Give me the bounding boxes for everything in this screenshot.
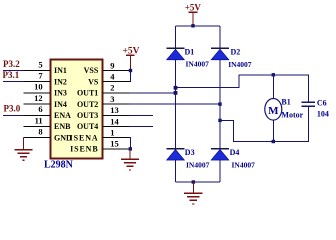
node junction motor top [272,73,275,76]
svg-text:IN4007: IN4007 [232,161,256,170]
svg-text:OUT4: OUT4 [77,122,98,131]
wire VSS stub [130,70,132,72]
wire motor bottom from right leg [220,107,308,142]
node junction OUT2/right leg [218,102,221,105]
motor B1 [265,98,304,120]
node junction motor bottom tap/right leg [218,119,221,122]
ground at GND pin8 [14,138,32,161]
wire ISENA down [130,138,131,149]
wire ISENB stub [130,148,132,150]
svg-text:D3: D3 [185,148,195,157]
node junction motor wire/left leg [174,86,178,90]
power +5V bridge top [185,3,202,26]
svg-text:11: 11 [35,115,43,125]
svg-text:104: 104 [317,110,329,119]
node junction VSS/VS/+5V [129,69,132,72]
pin IN1 pin5 [24,70,51,72]
svg-text:B1: B1 [281,98,290,107]
svg-text:9: 9 [110,60,114,70]
ground at ISENA/ISENB [121,149,139,170]
pin OUT3 pin13 [103,114,130,116]
wire P3.0 to ENA [3,114,24,116]
svg-text:IN4007: IN4007 [186,161,210,170]
svg-text:+5V: +5V [185,3,202,13]
svg-text:VSS: VSS [84,66,99,75]
pin OUT1 pin2 [103,92,130,94]
svg-text:Motor: Motor [281,110,303,119]
svg-text:IN4007: IN4007 [228,60,252,69]
svg-text:5: 5 [38,59,42,69]
svg-text:OUT3: OUT3 [77,111,98,120]
pin ISENB pin15 [103,148,130,150]
wire motor top lead [272,75,274,99]
wire P3.1 to IN2 [3,81,24,83]
node junction OUT1/left leg [174,91,178,95]
svg-text:P3.1: P3.1 [3,70,20,80]
wire bridge bottom rail [176,181,221,183]
svg-text:P3.2: P3.2 [3,59,20,69]
svg-text:6: 6 [38,104,42,114]
wire P3.2 to IN1 [3,70,24,72]
wire bridge right leg [219,26,221,182]
pin IN2 pin7 [24,81,51,83]
svg-text:7: 7 [38,71,43,81]
pin IN3 pin10 [24,92,51,94]
node junction bottom rail/ground [192,180,195,183]
svg-text:12: 12 [34,93,43,103]
svg-text:IN1: IN1 [54,66,67,75]
wire OUT2 to bridge [130,103,221,105]
capacitor C6 [302,98,329,118]
diode D1 [167,47,210,68]
node junction ISENA/ISENB [129,147,132,150]
svg-text:L298N: L298N [44,159,74,170]
svg-text:IN4007: IN4007 [186,59,210,68]
diode D3 [167,148,210,169]
svg-text:ISENB: ISENB [70,145,99,154]
pin OUT4 pin14 [103,126,130,128]
svg-text:D2: D2 [231,47,241,56]
svg-text:10: 10 [34,82,43,92]
svg-text:13: 13 [110,105,119,115]
wire bridge top rail [176,25,221,27]
ground at bridge bottom [184,182,202,204]
svg-text:D4: D4 [230,148,240,157]
pin ENA pin6 [24,114,51,116]
wire OUT3 stub [130,114,154,116]
wire OUT1 to bridge [130,92,176,94]
svg-text:4: 4 [110,72,115,82]
svg-text:2: 2 [110,83,114,93]
pin IN4 pin12 [24,103,51,105]
svg-text:OUT2: OUT2 [77,100,98,109]
diode D4 [211,148,255,169]
pin VS pin4 [103,81,130,83]
svg-text:ISENA: ISENA [70,133,99,142]
svg-text:IN2: IN2 [54,77,67,86]
svg-text:P3.0: P3.0 [4,104,21,114]
svg-text:C6: C6 [317,98,327,107]
svg-text:IN4: IN4 [54,100,67,109]
wire motor bottom lead [272,120,274,142]
svg-text:3: 3 [110,94,114,104]
pin GND pin8 [24,137,51,139]
svg-text:14: 14 [110,116,119,126]
svg-text:M: M [268,105,279,117]
svg-text:ENA: ENA [54,111,71,120]
wire motor top from left leg [176,75,309,102]
pin OUT2 pin3 [103,103,130,105]
power +5V at VSS/VS [122,47,139,71]
svg-text:1: 1 [110,128,114,138]
svg-text:8: 8 [38,127,42,137]
svg-text:VS: VS [88,77,99,86]
pin ISENA pin1 [103,137,130,139]
node junction +5V top rail [191,24,194,27]
svg-text:IN3: IN3 [54,89,67,98]
svg-text:15: 15 [110,139,119,149]
wire VS stub [130,81,132,83]
pin ENB pin11 [24,126,51,128]
pin VSS pin9 [103,70,130,72]
op-amp U1 : L298N IC body [51,60,103,159]
wire VSS junction vertical [130,71,132,82]
svg-text:ENB: ENB [54,122,71,131]
diode D2 [211,47,252,68]
wire bridge left leg [175,26,177,182]
node junction motor bottom [272,140,275,143]
wire OUT4 stub [130,126,154,128]
svg-text:OUT1: OUT1 [77,89,98,98]
svg-text:D1: D1 [185,47,195,56]
